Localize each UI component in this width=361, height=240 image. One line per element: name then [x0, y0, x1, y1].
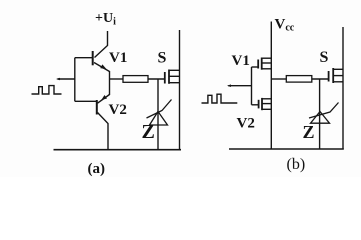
- svg-text:V2: V2: [237, 116, 255, 132]
- MOSFET V1 channel bar (b): [261, 58, 263, 70]
- MOSFET V1 gate lead (b): [252, 66, 259, 68]
- wire output node to resistor (b): [271, 78, 286, 80]
- svg-text:V1: V1: [109, 50, 127, 66]
- wire S drain-source vertical (a): [179, 30, 181, 150]
- MOSFET S channel bar (b): [332, 68, 334, 83]
- svg-text:S: S: [320, 49, 329, 66]
- resistor R (b): [286, 76, 312, 83]
- svg-text:V2: V2: [109, 102, 127, 118]
- svg-text:Z: Z: [142, 121, 155, 143]
- zener diode Z (b) triangle: [311, 112, 330, 124]
- MOSFET V2 gate bar (b): [258, 100, 260, 109]
- transistor V1 emitter with NPN arrow: [94, 63, 110, 72]
- svg-text:Z: Z: [303, 122, 315, 142]
- wire gates join vertical (b): [251, 67, 253, 105]
- MOSFET V2 gate lead (b): [252, 104, 259, 106]
- wire +Ui supply to V1 collector: [95, 31, 108, 58]
- MOSFET S drain stub (a): [169, 69, 180, 71]
- MOSFET V2 channel bar (b): [261, 98, 263, 110]
- wire zener tap vertical (b): [319, 79, 321, 149]
- MOSFET V1 bulk stub (b): [262, 62, 272, 64]
- node output vertical (a): [109, 71, 111, 95]
- svg-text:V1: V1: [232, 53, 250, 69]
- svg-text:(b): (b): [287, 156, 306, 173]
- MOSFET S gate bar (a): [164, 72, 166, 84]
- zener diode Z (a) cathode bar: [147, 100, 172, 119]
- ground rail (a): [54, 149, 182, 151]
- MOSFET S bulk stub (a): [169, 75, 180, 77]
- MOSFET S gate bar (b): [328, 71, 330, 82]
- MOSFET S source stub (a): [169, 82, 180, 84]
- input arrow (a): [56, 78, 60, 81]
- wire zener tap vertical (a): [157, 79, 159, 150]
- wire V1 base lead: [75, 57, 93, 59]
- svg-text:(a): (a): [88, 161, 106, 177]
- wire input lead (a): [58, 78, 75, 80]
- zener diode Z (b) cathode bar: [309, 103, 339, 119]
- MOSFET V1 gate bar (b): [257, 60, 259, 69]
- MOSFET V2 drain stub (b): [262, 98, 271, 100]
- MOSFET V2 bulk stub (b): [262, 103, 271, 105]
- wire V2 base lead: [75, 100, 97, 102]
- MOSFET V2 source stub (b): [262, 108, 271, 110]
- transistor V2 emitter with PNP arrow: [98, 95, 110, 104]
- MOSFET S source stub (b): [333, 81, 343, 83]
- input arrow (b): [227, 84, 231, 87]
- zener diode Z (a) triangle: [150, 112, 168, 126]
- wire S drain-source vertical (b): [342, 27, 344, 149]
- svg-text:Vcc: Vcc: [275, 17, 295, 34]
- ground rail (b): [229, 148, 344, 150]
- MOSFET S drain stub (b): [333, 68, 343, 70]
- wire resistor to gate (a): [148, 78, 165, 80]
- MOSFET V1 drain stub (b): [262, 57, 272, 59]
- MOSFET V1 source stub (b): [262, 68, 272, 70]
- wire resistor to gate (b): [312, 78, 329, 80]
- square wave source symbol (a): [32, 86, 62, 94]
- wire output node to resistor (a): [110, 78, 124, 80]
- svg-text:S: S: [158, 50, 167, 67]
- wire bases join vertical (a): [74, 58, 76, 102]
- wire Vcc central vertical (b): [270, 22, 272, 150]
- MOSFET S bulk stub (b): [333, 75, 343, 77]
- wire input lead (b): [228, 85, 251, 87]
- svg-text:+Ui: +Ui: [95, 11, 116, 28]
- resistor R (a): [123, 76, 148, 83]
- transistor V2 collector: [98, 113, 109, 150]
- transistor V1 base bar: [92, 51, 94, 65]
- MOSFET S channel bar (a): [168, 70, 170, 84]
- transistor V2 base bar: [96, 100, 98, 115]
- square wave source symbol (b): [202, 94, 238, 103]
